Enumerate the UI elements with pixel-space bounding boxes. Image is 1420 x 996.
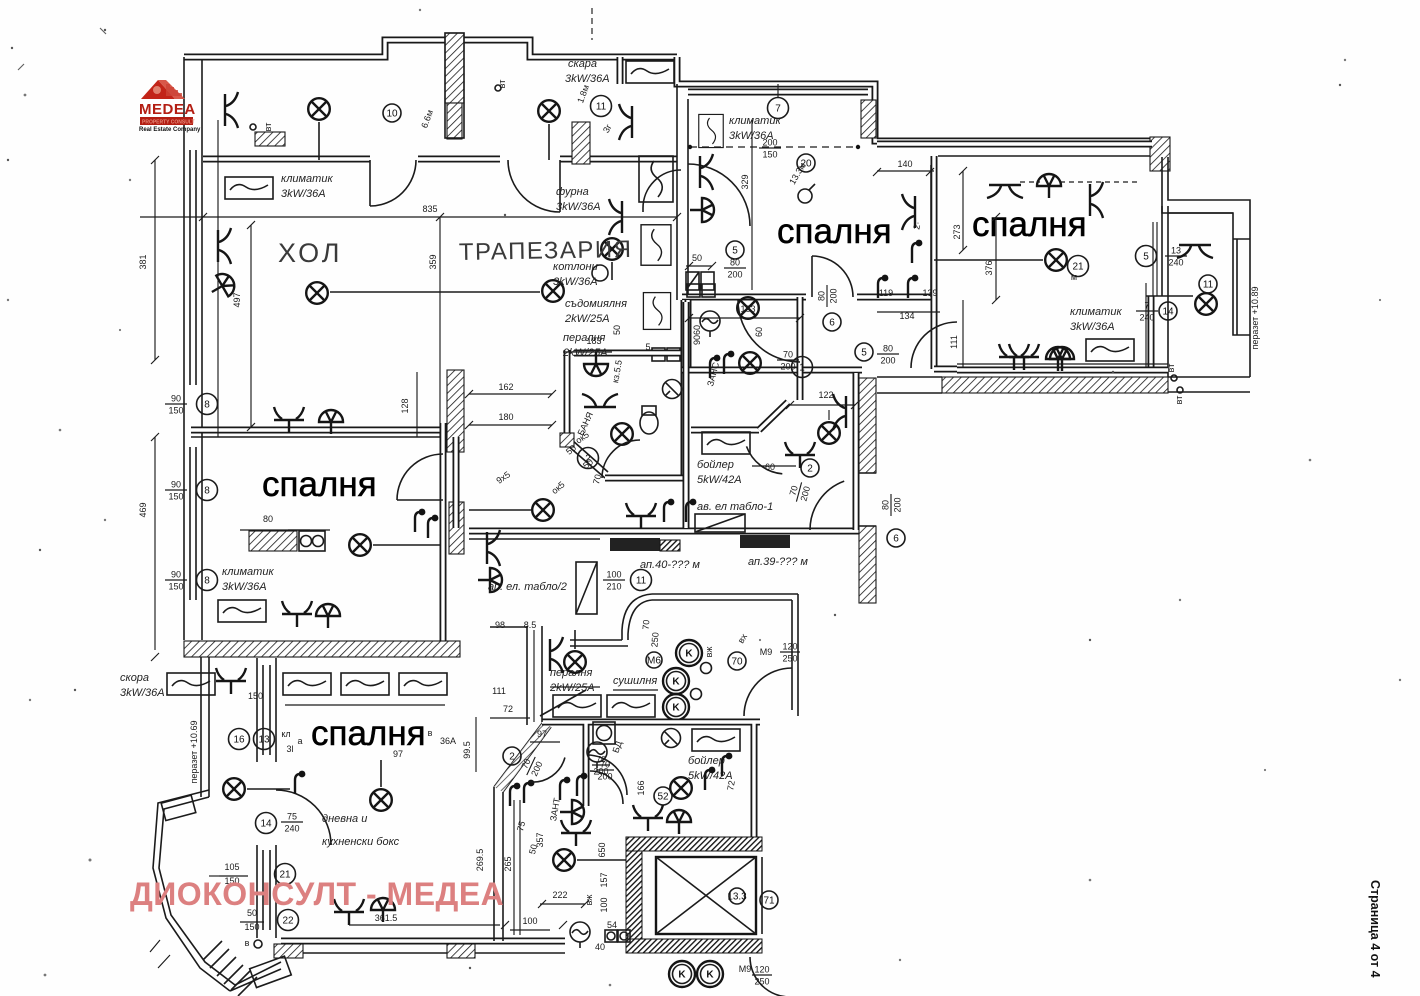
svg-text:3l: 3l xyxy=(286,744,293,754)
svg-text:90: 90 xyxy=(171,570,181,580)
svg-text:111: 111 xyxy=(492,686,506,696)
svg-text:3kW/36A: 3kW/36A xyxy=(120,687,165,699)
svg-text:кл: кл xyxy=(281,729,290,739)
svg-text:2: 2 xyxy=(509,752,515,763)
svg-text:70: 70 xyxy=(731,657,743,668)
svg-text:52: 52 xyxy=(657,792,669,803)
svg-text:8.5: 8.5 xyxy=(524,620,537,630)
svg-text:120: 120 xyxy=(782,642,797,652)
svg-text:50: 50 xyxy=(612,325,622,335)
svg-text:376: 376 xyxy=(984,260,994,275)
svg-text:скара: скара xyxy=(568,58,597,70)
svg-text:139: 139 xyxy=(922,288,937,298)
svg-text:183: 183 xyxy=(586,336,601,346)
svg-text:100: 100 xyxy=(599,897,609,912)
svg-text:210: 210 xyxy=(606,582,621,592)
svg-text:75: 75 xyxy=(287,812,297,822)
svg-text:ХОЛ: ХОЛ xyxy=(278,238,343,268)
svg-text:съдомиялня: съдомиялня xyxy=(565,298,627,310)
svg-text:97: 97 xyxy=(393,749,403,759)
svg-text:дневна и: дневна и xyxy=(322,813,367,825)
svg-text:2: 2 xyxy=(807,464,813,475)
svg-text:перазет +10.89: перазет +10.89 xyxy=(1250,287,1260,350)
svg-text:183: 183 xyxy=(740,304,755,314)
svg-text:90: 90 xyxy=(171,480,181,490)
svg-text:70: 70 xyxy=(600,760,610,770)
svg-text:бойлер: бойлер xyxy=(688,755,725,767)
svg-text:162: 162 xyxy=(498,382,513,392)
svg-text:100: 100 xyxy=(522,916,537,926)
svg-text:фурна: фурна xyxy=(556,186,589,198)
svg-text:497: 497 xyxy=(232,292,242,307)
svg-text:119: 119 xyxy=(879,288,893,298)
svg-text:8: 8 xyxy=(204,486,210,497)
svg-text:150: 150 xyxy=(168,582,183,592)
svg-text:ап.40-??? м: ап.40-??? м xyxy=(640,559,700,571)
svg-text:14: 14 xyxy=(260,819,272,830)
svg-text:166: 166 xyxy=(636,780,646,795)
svg-text:в: в xyxy=(245,938,250,948)
svg-text:105: 105 xyxy=(224,862,239,872)
svg-text:вт: вт xyxy=(497,80,507,89)
svg-text:скора: скора xyxy=(120,672,149,684)
svg-text:269.5: 269.5 xyxy=(475,849,485,872)
svg-text:240: 240 xyxy=(1139,313,1154,323)
svg-text:8: 8 xyxy=(204,576,210,587)
svg-text:MEDEA: MEDEA xyxy=(139,101,196,118)
svg-text:7: 7 xyxy=(775,104,781,115)
svg-text:90: 90 xyxy=(692,335,702,345)
svg-text:122: 122 xyxy=(818,390,833,400)
svg-text:240: 240 xyxy=(284,824,299,834)
svg-text:2kW/25A: 2kW/25A xyxy=(562,347,608,359)
svg-text:14: 14 xyxy=(1162,307,1174,318)
svg-text:вт: вт xyxy=(1174,396,1184,405)
svg-text:240: 240 xyxy=(1168,258,1183,268)
svg-text:361.5: 361.5 xyxy=(375,913,398,923)
svg-text:13: 13 xyxy=(258,735,270,746)
svg-text:м: м xyxy=(1071,272,1077,282)
svg-text:кухненски бокс: кухненски бокс xyxy=(322,836,400,848)
svg-text:21: 21 xyxy=(1072,262,1084,273)
svg-text:54: 54 xyxy=(607,920,617,930)
svg-text:157: 157 xyxy=(599,872,609,887)
svg-text:128: 128 xyxy=(400,398,410,413)
svg-text:8: 8 xyxy=(204,400,210,411)
svg-text:835: 835 xyxy=(422,204,437,214)
svg-text:вт: вт xyxy=(263,123,273,132)
svg-text:в: в xyxy=(428,728,433,738)
svg-text:6: 6 xyxy=(893,534,899,545)
svg-text:Страница 4 от 4: Страница 4 от 4 xyxy=(1368,880,1382,978)
svg-text:80: 80 xyxy=(817,291,827,301)
svg-text:98: 98 xyxy=(495,620,505,630)
svg-text:Real Estate Company: Real Estate Company xyxy=(139,127,201,133)
svg-text:13: 13 xyxy=(1171,246,1181,256)
svg-text:90: 90 xyxy=(171,394,181,404)
svg-text:1: 1 xyxy=(799,363,805,374)
svg-text:99.5: 99.5 xyxy=(462,741,472,759)
svg-text:111: 111 xyxy=(949,335,959,349)
svg-text:3kW/36A: 3kW/36A xyxy=(565,73,610,85)
svg-text:13.3: 13.3 xyxy=(727,892,747,903)
svg-text:200: 200 xyxy=(780,362,795,372)
svg-text:3kW/36A: 3kW/36A xyxy=(222,581,267,593)
svg-text:250: 250 xyxy=(782,654,797,664)
svg-text:72: 72 xyxy=(725,780,737,792)
svg-text:климатик: климатик xyxy=(222,566,274,578)
svg-text:10: 10 xyxy=(386,109,398,120)
svg-text:50: 50 xyxy=(692,253,702,263)
svg-text:ТРАПЕЗАРИЯ: ТРАПЕЗАРИЯ xyxy=(459,236,633,266)
svg-text:а: а xyxy=(297,736,302,746)
svg-text:сушилня: сушилня xyxy=(613,675,657,687)
svg-text:вж: вж xyxy=(704,647,714,658)
svg-text:ДИОКОНСУЛТ - МЕДЕА: ДИОКОНСУЛТ - МЕДЕА xyxy=(130,876,504,912)
svg-text:381: 381 xyxy=(138,254,148,269)
svg-text:спалня: спалня xyxy=(777,212,892,251)
svg-text:3kW/36A: 3kW/36A xyxy=(1070,321,1115,333)
svg-text:200: 200 xyxy=(597,772,612,782)
svg-text:60: 60 xyxy=(754,327,764,337)
svg-text:M9: M9 xyxy=(760,647,773,657)
svg-text:спалня: спалня xyxy=(311,714,426,753)
svg-text:36А: 36А xyxy=(440,736,456,746)
svg-text:250: 250 xyxy=(649,632,660,648)
svg-text:200: 200 xyxy=(880,356,895,366)
svg-text:180: 180 xyxy=(498,412,513,422)
svg-text:вт: вт xyxy=(1166,364,1176,373)
svg-text:3kW/36A: 3kW/36A xyxy=(556,201,601,213)
svg-text:650: 650 xyxy=(597,842,607,857)
svg-text:100: 100 xyxy=(606,570,621,580)
svg-text:329: 329 xyxy=(740,174,750,189)
svg-text:3kW/36A: 3kW/36A xyxy=(281,188,326,200)
svg-text:климатик: климатик xyxy=(1070,306,1122,318)
svg-text:М6: М6 xyxy=(647,656,661,667)
svg-text:2·: 2· xyxy=(911,221,922,231)
svg-text:перазет +10.69: перазет +10.69 xyxy=(189,721,199,784)
svg-text:5: 5 xyxy=(732,246,738,257)
svg-text:222: 222 xyxy=(552,890,567,900)
svg-text:22: 22 xyxy=(282,916,294,927)
svg-text:200: 200 xyxy=(727,270,742,280)
svg-text:80: 80 xyxy=(263,514,273,524)
svg-text:спалня: спалня xyxy=(262,465,377,504)
svg-text:97: 97 xyxy=(537,729,547,739)
svg-text:71: 71 xyxy=(763,896,775,907)
svg-text:80: 80 xyxy=(881,500,891,510)
svg-text:ав. ел табло-1: ав. ел табло-1 xyxy=(697,501,773,513)
svg-text:150: 150 xyxy=(168,406,183,416)
svg-text:150: 150 xyxy=(244,922,259,932)
svg-text:ап.39-??? м: ап.39-??? м xyxy=(748,556,808,568)
svg-text:11: 11 xyxy=(1203,280,1214,291)
svg-text:80: 80 xyxy=(730,258,740,268)
svg-text:140: 140 xyxy=(897,159,912,169)
svg-text:200: 200 xyxy=(762,138,777,148)
svg-text:273: 273 xyxy=(952,224,962,239)
svg-text:40: 40 xyxy=(595,942,605,952)
svg-text:200: 200 xyxy=(893,497,903,512)
svg-text:5: 5 xyxy=(861,348,867,359)
svg-text:200: 200 xyxy=(829,288,839,303)
svg-text:3kW/36A: 3kW/36A xyxy=(553,276,598,288)
svg-text:M9: M9 xyxy=(739,964,752,974)
svg-text:150: 150 xyxy=(248,691,263,701)
svg-text:2kW/25A: 2kW/25A xyxy=(564,313,610,325)
svg-text:2kW/25A: 2kW/25A xyxy=(549,682,595,694)
svg-text:11: 11 xyxy=(596,102,607,113)
svg-text:16: 16 xyxy=(233,735,245,746)
svg-text:5: 5 xyxy=(645,342,650,352)
svg-text:спалня: спалня xyxy=(972,205,1087,244)
svg-text:11: 11 xyxy=(636,576,647,587)
svg-text:70: 70 xyxy=(783,350,793,360)
svg-text:70: 70 xyxy=(641,619,652,630)
svg-text:265: 265 xyxy=(503,856,513,871)
svg-text:бойлер: бойлер xyxy=(697,459,734,471)
svg-text:PROPERTY CONSULT: PROPERTY CONSULT xyxy=(142,120,195,126)
svg-text:60: 60 xyxy=(765,462,775,472)
svg-text:20: 20 xyxy=(800,159,812,170)
svg-text:климатик: климатик xyxy=(281,173,333,185)
svg-text:60: 60 xyxy=(692,325,702,335)
svg-text:120: 120 xyxy=(754,965,769,975)
svg-text:150: 150 xyxy=(168,492,183,502)
svg-text:469: 469 xyxy=(138,502,148,517)
svg-text:5kW/42A: 5kW/42A xyxy=(697,474,742,486)
svg-text:359: 359 xyxy=(428,254,438,269)
svg-text:6: 6 xyxy=(829,318,835,329)
svg-text:72: 72 xyxy=(503,704,513,714)
svg-text:7: 7 xyxy=(1144,301,1149,311)
svg-text:150: 150 xyxy=(762,150,777,160)
svg-text:2: 2 xyxy=(585,454,591,465)
svg-text:5: 5 xyxy=(1143,252,1149,263)
svg-text:80: 80 xyxy=(883,344,893,354)
